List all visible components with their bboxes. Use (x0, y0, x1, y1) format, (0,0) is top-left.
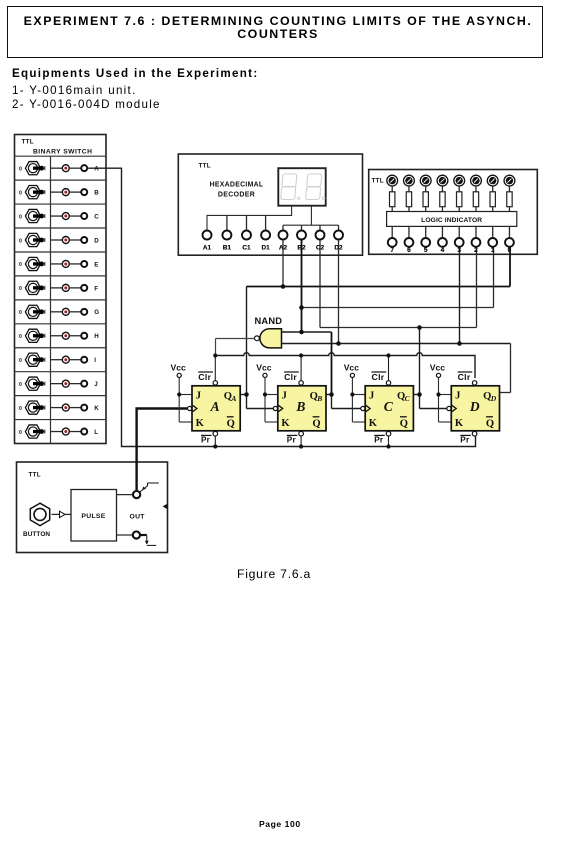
decoder left digit bus (207, 206, 292, 231)
svg-text:PULSE: PULSE (81, 513, 105, 520)
JK flip-flop C (344, 363, 414, 445)
svg-text:LOGIC INDICATOR: LOGIC INDICATOR (421, 217, 482, 224)
svg-text:5: 5 (424, 247, 428, 254)
equipment list heading (12, 67, 258, 80)
svg-text:C: C (94, 213, 99, 220)
svg-text:H: H (94, 333, 99, 340)
indicator resistor 3 (457, 192, 462, 212)
svg-text:Vcc: Vcc (344, 363, 360, 373)
svg-text:Pr: Pr (201, 436, 211, 445)
svg-text:OUT: OUT (130, 513, 146, 520)
svg-text:D: D (469, 399, 480, 414)
svg-text:Vcc: Vcc (171, 363, 187, 373)
push button symbol (23, 503, 50, 538)
binary switch row J (toggle, LED, terminal) (19, 377, 98, 390)
svg-text:2: 2 (474, 247, 478, 254)
svg-text:A2: A2 (279, 245, 288, 252)
svg-text:Q: Q (486, 419, 494, 430)
svg-text:TTL: TTL (372, 178, 384, 185)
svg-text:Clr: Clr (284, 372, 297, 382)
binary switch row H (toggle, LED, terminal) (19, 329, 99, 342)
svg-text:D: D (94, 237, 99, 244)
OUT label (130, 513, 146, 520)
indicator resistor 1 (490, 192, 495, 212)
svg-text:0: 0 (19, 166, 22, 172)
svg-text:BUTTON: BUTTON (23, 531, 50, 538)
svg-text:K: K (196, 418, 205, 429)
svg-text:C1: C1 (242, 245, 251, 252)
svg-text:J: J (196, 390, 201, 401)
indicator LED 5 (420, 175, 431, 192)
net Q_A: FF A output to decoder A2, indicator 0, FF B clock (240, 240, 510, 409)
binary switch row K (toggle, LED, terminal) (19, 401, 99, 414)
logic indicator inner box (387, 212, 517, 227)
equipment item 1 (12, 84, 137, 97)
svg-text:B1: B1 (223, 245, 232, 252)
net Q_B: FF B output to NAND input, decoder B2, indicator 1, FF C clock (282, 240, 494, 409)
equipment item 2 (12, 98, 161, 111)
net Q_C: FF C output to decoder C2, indicator 2, FF D clock (320, 240, 477, 409)
svg-text:J: J (369, 390, 374, 401)
svg-text:7: 7 (390, 247, 394, 254)
svg-text:1: 1 (491, 247, 495, 254)
svg-text:I: I (94, 357, 96, 364)
svg-text:A: A (210, 399, 220, 414)
svg-text:NAND: NAND (255, 316, 283, 326)
svg-text:Clr: Clr (198, 372, 211, 382)
7-segment display (278, 168, 325, 206)
binary switch row G (toggle, LED, terminal) (19, 305, 99, 318)
NAND gate U1 (mirrored, output left) (255, 329, 282, 348)
svg-text:K: K (455, 418, 464, 429)
indicator resistor 5 (423, 192, 428, 212)
svg-text:G: G (94, 309, 99, 316)
svg-text:Clr: Clr (458, 372, 471, 382)
binary switch row I (toggle, LED, terminal) (19, 353, 96, 366)
indicator LED 3 (454, 175, 465, 192)
binary switch row A (toggle, LED, terminal) (19, 162, 99, 175)
svg-text:Pr: Pr (460, 436, 470, 445)
indicator resistor 0 (507, 192, 512, 212)
svg-text:B: B (94, 190, 99, 197)
JK flip-flop D (430, 363, 500, 445)
svg-text:F: F (94, 285, 98, 292)
decoder right digit bus (283, 206, 339, 231)
svg-text:0: 0 (507, 247, 511, 254)
decoder terminals A1-D2 (203, 231, 344, 252)
svg-text:Pr: Pr (374, 436, 384, 445)
svg-text:E: E (94, 261, 98, 268)
indicator LED 7 (387, 175, 398, 192)
wire: switch A output to Pr preset bus (87, 168, 475, 446)
binary switch row C (toggle, LED, terminal) (19, 209, 99, 222)
svg-text:0: 0 (19, 430, 22, 436)
figure caption (237, 567, 311, 581)
binary switch row B (toggle, LED, terminal) (19, 186, 99, 199)
svg-text:Q: Q (312, 419, 320, 430)
NAND gate label (255, 316, 283, 326)
binary switch row D (toggle, LED, terminal) (19, 233, 99, 246)
arrow button to pulse (52, 511, 72, 517)
svg-text:C2: C2 (316, 245, 325, 252)
indicator resistor 4 (440, 192, 445, 212)
svg-text:TTL: TTL (29, 472, 41, 479)
indicator terminals 7-0 (388, 226, 514, 253)
svg-text:HEXADECIMAL: HEXADECIMAL (210, 181, 264, 188)
svg-text:K: K (94, 405, 99, 412)
JK flip-flop A (171, 363, 241, 445)
indicator LED 0 (504, 175, 515, 192)
svg-text:J: J (282, 390, 287, 401)
OUT terminal bottom (117, 531, 157, 545)
svg-text:J: J (94, 381, 98, 388)
svg-text:Vcc: Vcc (256, 363, 272, 373)
svg-text:L: L (94, 429, 98, 436)
svg-text:A: A (94, 166, 99, 173)
hexadecimal decoder module box (178, 154, 362, 255)
binary switch row F (toggle, LED, terminal) (19, 281, 98, 294)
svg-text:J: J (455, 390, 460, 401)
indicator LED 1 (487, 175, 498, 192)
OUT terminal top (117, 483, 159, 498)
indicator LED 4 (437, 175, 448, 192)
svg-text:0: 0 (19, 214, 22, 220)
indicator resistor 7 (390, 192, 395, 212)
svg-text:0: 0 (19, 262, 22, 268)
svg-text:B: B (295, 399, 305, 414)
thick wire: pulse OUT to FF A clock (137, 409, 188, 492)
svg-text:3: 3 (457, 247, 461, 254)
svg-text:A1: A1 (203, 245, 212, 252)
logic indicator module box (369, 170, 538, 255)
svg-text:K: K (281, 418, 290, 429)
page number (259, 819, 301, 829)
indicator resistor 2 (473, 192, 478, 212)
title box (7, 6, 543, 58)
svg-text:TTL: TTL (199, 163, 211, 170)
svg-text:Clr: Clr (372, 372, 385, 382)
JK flip-flop B (256, 363, 326, 445)
pulse generator module box (17, 462, 168, 553)
svg-text:0: 0 (19, 190, 22, 196)
net NAND output to Clr bus (213, 339, 475, 382)
indicator LED 6 (404, 175, 415, 192)
svg-text:A: A (230, 394, 236, 403)
binary switch row E (toggle, LED, terminal) (19, 257, 98, 270)
svg-text:D: D (490, 394, 497, 403)
svg-text:0: 0 (19, 334, 22, 340)
binary switch module box (15, 135, 107, 444)
svg-text:0: 0 (19, 382, 22, 388)
svg-text:0: 0 (19, 238, 22, 244)
indicator resistor 6 (406, 192, 411, 212)
indicator terminal labels overlay (390, 247, 511, 254)
svg-text:0: 0 (19, 358, 22, 364)
svg-text:Pr: Pr (287, 436, 297, 445)
Pr bus risers and junction dots (213, 436, 390, 449)
binary switch row L (toggle, LED, terminal) (19, 425, 98, 438)
net Q_D: FF D output to NAND input, decoder D2, indicator 3 (282, 240, 511, 393)
svg-text:D2: D2 (334, 245, 343, 252)
svg-text:0: 0 (19, 406, 22, 412)
svg-text:Q: Q (227, 419, 235, 430)
svg-text:4: 4 (440, 247, 444, 254)
decoder terminal labels overlay (203, 245, 343, 252)
svg-text:B: B (316, 394, 322, 403)
svg-text:C: C (384, 399, 394, 414)
svg-text:Q: Q (400, 419, 408, 430)
svg-text:TTL: TTL (22, 139, 34, 146)
svg-text:B2: B2 (297, 245, 306, 252)
pulse inner box (71, 490, 117, 542)
svg-text:0: 0 (19, 310, 22, 316)
svg-text:K: K (369, 418, 378, 429)
svg-text:6: 6 (407, 247, 411, 254)
svg-text:D1: D1 (261, 245, 270, 252)
svg-text:0: 0 (19, 286, 22, 292)
svg-text:BINARY SWITCH: BINARY SWITCH (33, 149, 92, 156)
indicator LED 2 (471, 175, 482, 192)
svg-text:DECODER: DECODER (218, 192, 255, 199)
svg-text:Vcc: Vcc (430, 363, 446, 373)
small arrow on pulse box edge (163, 504, 168, 510)
